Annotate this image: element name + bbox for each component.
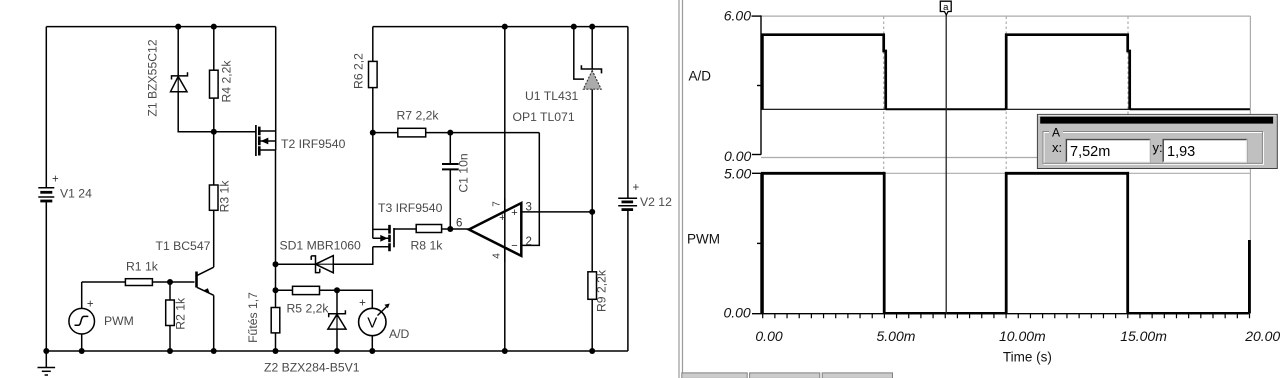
svg-text:T3 IRF9540: T3 IRF9540 [378,201,443,215]
svg-text:Time (s): Time (s) [1003,350,1052,365]
node gate T2 [211,129,217,135]
svg-text:R1 1k: R1 1k [126,260,159,274]
wire R8 right to op-amp output [442,228,469,230]
plot frame grey divider between plots [761,157,1250,159]
svg-text:0.00: 0.00 [724,148,751,164]
PWM trace pulse 2 [1006,173,1127,313]
cursor info panel [1037,114,1277,168]
wire R3 top [213,132,215,185]
node R5 left [273,287,279,293]
transistor T2 [256,125,276,156]
wire C1 bottom to node 6 [449,169,451,229]
svg-text:x:: x: [1052,140,1062,155]
capacitor C1 [442,164,459,169]
wire R9 top [591,212,593,272]
wire heater resistor bottom [275,333,277,351]
wire R6 bottom to R7 node [372,88,374,133]
PWM trace right edge spike [1248,240,1251,313]
node meter bottom [369,348,375,354]
wire T2 source drop [275,27,277,131]
resistor R2 [166,300,175,326]
zener Z1 [171,72,188,91]
svg-text:R4 2,2k: R4 2,2k [220,60,234,103]
svg-text:+: + [359,297,366,309]
wire right edge to V2 [627,27,629,199]
bottom tab 3 [822,373,892,378]
wire V2 bottom [627,210,629,351]
svg-text:V2 12: V2 12 [640,195,672,209]
PWM trace low segment 1 [884,312,1006,314]
x axis [752,313,1250,315]
A/D cursor level hairline [761,108,1250,110]
A/D trace pulse 1 [762,35,885,110]
svg-text:6.00: 6.00 [724,8,751,24]
svg-text:−: − [511,240,517,252]
op-amp OP1 triangle [469,203,521,256]
gridline dashed 15ms [1127,17,1129,314]
svg-text:7,52m: 7,52m [1070,144,1110,160]
wire TL431 anode down [591,89,593,212]
svg-text:+: + [499,212,505,224]
wire R5 right to Z2 node [320,289,338,291]
svg-text:+: + [632,182,639,194]
wire C1 top [449,133,451,164]
svg-text:2: 2 [526,236,532,248]
svg-text:3: 3 [526,202,532,214]
wire TL431 ref [574,27,584,80]
svg-text:R7 2,2k: R7 2,2k [397,109,440,123]
wire T1 emitter down [213,295,215,351]
wire R6 top [372,27,374,62]
node T1 emitter bottom [211,348,217,354]
resistor R4 [210,70,219,98]
gridline dashed 10ms [1005,17,1007,314]
PWM trace pulse 1 [762,173,884,313]
svg-text:+: + [52,174,59,186]
node supply bottom [502,348,508,354]
node TL431 ref top [571,24,577,30]
wire T3 gate lead [394,228,416,230]
svg-text:U1 TL431: U1 TL431 [525,89,579,103]
wire Z2 bottom [336,329,338,351]
wire Z2 top [336,290,338,313]
wire bottom rail [46,350,628,352]
svg-text:R6 2,2: R6 2,2 [352,53,366,89]
resistor R3 [209,185,218,210]
node 6 [447,226,453,232]
wire PWM top [81,282,83,308]
plot frame grey top 6.00 line [761,15,1250,17]
resistor R9 [588,272,597,300]
cursor panel y field [1163,139,1247,162]
wire left rail lower [45,201,47,351]
node R4 top [211,24,217,30]
svg-text:y:: y: [1153,140,1163,155]
wire T2 drain down to heater node [275,150,277,264]
transistor T3 [373,225,394,251]
svg-text:V1 24: V1 24 [60,187,92,201]
svg-text:Fűtés 1,7: Fűtés 1,7 [246,292,260,343]
cursor panel group box A [1043,126,1263,164]
node heater top [273,261,279,267]
node C1 top [447,130,453,136]
wire SD1 right to T3 [333,247,373,264]
svg-text:Z1 BZX55C12: Z1 BZX55C12 [146,39,160,116]
node TL431 cathode top [589,24,595,30]
wire feedback loop to op-amp pin 2 [522,133,540,246]
svg-text:SD1 MBR1060: SD1 MBR1060 [280,239,362,253]
wire R1 left from PWM [82,281,126,283]
svg-text:C1 10n: C1 10n [457,153,471,192]
node R2 bottom [167,348,173,354]
resistor R1 [125,279,152,286]
wire R4 top [213,27,215,71]
svg-text:10.00m: 10.00m [999,328,1046,344]
gridline dashed 5ms [883,17,885,314]
wire heater resistor top [275,264,277,307]
resistor R5 [293,286,320,294]
cursor panel x field [1066,139,1150,162]
svg-text:A: A [1052,125,1060,139]
wire SD1 left [276,263,316,265]
svg-text:R5 2,2k: R5 2,2k [287,302,330,316]
node R7 left [370,130,376,136]
node heater bottom [273,348,279,354]
wire top rail right segment [373,26,628,28]
wire Z1 bottom to gate node [178,92,256,132]
wire R4 bottom [213,98,215,132]
svg-text:R2 1k: R2 1k [174,297,188,330]
wire R5 left [276,289,293,291]
wire Z2 node to meter [337,290,372,308]
svg-text:A/D: A/D [389,327,410,341]
node Z1 top [175,24,181,30]
svg-text:PWM: PWM [687,232,720,247]
svg-text:5.00: 5.00 [724,166,751,182]
svg-text:Z2 BZX284-B5V1: Z2 BZX284-B5V1 [264,361,360,375]
PWM trace low segment 2 [1128,312,1250,314]
svg-text:1,93: 1,93 [1167,144,1195,160]
svg-text:a: a [943,2,949,13]
wire R2 bottom [169,326,171,352]
source PWM [69,308,95,334]
A/D trace low segment 1 [886,108,1007,110]
x axis minor ticks [763,314,1250,319]
node pin3 R9 [589,209,595,215]
svg-text:0.00: 0.00 [723,305,750,321]
svg-text:5.00m: 5.00m [877,328,916,344]
wire R3 bottom to T1 collector [213,210,215,267]
svg-text:T2 IRF9540: T2 IRF9540 [281,137,346,151]
plot frame grey right edge [1249,16,1251,314]
svg-text:V: V [367,315,377,332]
cursor a flag [940,1,951,15]
wire top rail left segment [46,26,275,28]
voltmeter A/D [359,304,390,336]
svg-text:20.00m: 20.00m [1244,328,1280,344]
resistor R7 [398,128,426,137]
transistor T1 [197,267,214,295]
node R1 R2 base [167,279,173,285]
wire R2 top [169,282,171,300]
wire Z1 top [177,27,179,76]
wire left rail upper [45,27,47,188]
wire R7 node down to T3 [372,133,374,239]
wire op-amp pin 3 to R9 node [521,211,592,213]
svg-text:6: 6 [456,218,462,230]
svg-text:15.00m: 15.00m [1120,328,1167,344]
resistor R6 [369,61,378,87]
wire R1 right to T1 base [152,281,194,283]
ground [38,351,56,375]
wire PWM bottom [81,334,83,351]
battery V1 [38,188,54,201]
shunt regulator U1 TL431 [581,65,601,89]
cursor a vertical line [945,14,947,314]
svg-text:+: + [87,299,94,311]
node Z2 top [334,287,340,293]
svg-text:4: 4 [492,253,503,259]
svg-text:R3 1k: R3 1k [218,180,232,213]
node supply top [502,24,508,30]
battery V2 [618,198,637,209]
diode SD1 [311,256,333,273]
zener Z2 [328,310,346,329]
resistor heater Futes [271,308,280,333]
node PWM bottom [79,348,85,354]
bottom tab 1 [682,373,747,378]
window splitter [679,0,683,378]
wire R7 right to feedback corner [426,132,540,134]
A/D trace pulse 2 [1006,35,1129,110]
node ground corner [43,348,49,354]
svg-text:R9 2,2k: R9 2,2k [595,269,609,312]
svg-text:A/D: A/D [689,69,712,84]
bottom tab 2 [750,373,820,378]
node Z2 bottom [334,348,340,354]
wire meter bottom [371,336,373,351]
wire op-amp supply line [504,27,506,351]
svg-text:0.00: 0.00 [755,328,782,344]
wire R7 left [373,132,398,134]
svg-text:+: + [511,207,517,219]
op-amp supply line through triangle [504,198,506,262]
node R9 bottom [589,348,595,354]
svg-text:R8 1k: R8 1k [411,239,444,253]
PWM y axis [752,173,761,314]
svg-text:OP1 TL071: OP1 TL071 [513,110,575,124]
wire R9 bottom [591,299,593,351]
plot grey 5.00 PWM line [761,172,1250,174]
svg-text:7: 7 [492,201,503,207]
svg-text:PWM: PWM [104,314,134,328]
svg-text:T1 BC547: T1 BC547 [156,239,211,253]
A/D y axis [752,15,762,154]
A/D trace low segment 2 [1130,108,1250,110]
wire TL431 cathode [591,27,593,69]
resistor R8 [416,225,441,233]
